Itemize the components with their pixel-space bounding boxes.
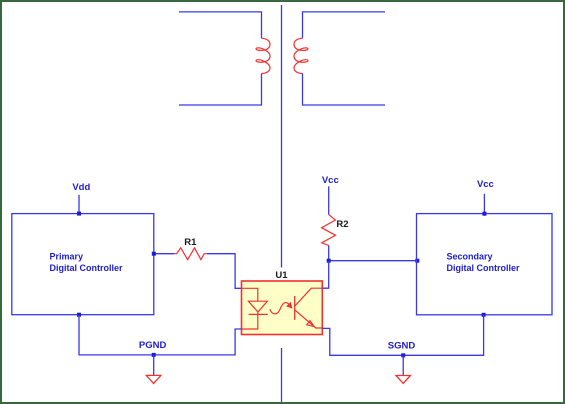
ground SGND xyxy=(396,376,410,384)
U1 phototransistor collector xyxy=(295,288,323,306)
opto-coupler U1 body xyxy=(242,281,323,335)
primary digital controller block xyxy=(12,214,154,315)
svg-text:Digital Controller: Digital Controller xyxy=(447,263,520,273)
junction secondary controller ground pin xyxy=(482,313,486,317)
resistor R2 xyxy=(322,215,336,246)
junction R2 node xyxy=(327,259,331,263)
svg-text:SGND: SGND xyxy=(388,341,416,352)
U1 light arrow xyxy=(270,303,291,314)
wire Vcc to secondary controller xyxy=(483,194,485,214)
U1 emitter arrowhead xyxy=(307,321,315,327)
junction Vcc pin xyxy=(482,212,486,216)
junction primary controller ground pin xyxy=(77,313,81,317)
junction SGND xyxy=(401,353,405,357)
svg-text:PGND: PGND xyxy=(139,340,167,351)
svg-text:Digital Controller: Digital Controller xyxy=(50,263,123,273)
U1 LED cathode lead xyxy=(242,312,258,329)
transformer T1 primary coil xyxy=(256,38,270,73)
secondary digital controller block xyxy=(417,214,553,315)
svg-text:Primary: Primary xyxy=(50,252,84,262)
transformer T1 primary winding wire xyxy=(179,12,262,105)
resistor R1 xyxy=(174,248,206,260)
U1 phototransistor base bar xyxy=(294,296,296,320)
wire junction to secondary controller xyxy=(329,260,418,262)
svg-text:R1: R1 xyxy=(184,237,197,248)
wire R2 to junction xyxy=(328,245,330,260)
wire PGND to ground xyxy=(153,355,155,375)
svg-text:R2: R2 xyxy=(336,219,348,230)
junction secondary controller input pin xyxy=(415,259,419,263)
svg-text:Vcc: Vcc xyxy=(477,179,494,190)
U1 LED cathode bar xyxy=(249,313,268,315)
transformer T1 secondary coil xyxy=(294,38,308,73)
wire junction to opto collector xyxy=(322,261,328,289)
svg-text:U1: U1 xyxy=(275,270,288,281)
ground PGND xyxy=(146,375,161,383)
wire Vcc to R2 xyxy=(328,186,330,214)
U1 LED xyxy=(248,301,267,312)
wire primary controller output to R1 xyxy=(154,253,175,255)
U1 phototransistor emitter xyxy=(295,310,323,328)
svg-text:Secondary: Secondary xyxy=(447,252,493,262)
U1 LED anode lead xyxy=(242,288,258,301)
svg-text:Vdd: Vdd xyxy=(72,182,90,193)
junction PGND xyxy=(152,353,156,357)
transformer T1 secondary winding wire xyxy=(303,12,386,105)
isolation barrier line (lower segment) xyxy=(281,348,283,402)
junction Vdd pin xyxy=(77,212,81,216)
svg-text:Vcc: Vcc xyxy=(322,175,339,186)
wire R1 to opto anode xyxy=(207,254,242,289)
wire Vdd to primary controller xyxy=(78,195,80,214)
wire primary controller to PGND rail xyxy=(79,315,242,355)
wire opto emitter to SGND rail xyxy=(322,315,483,356)
junction primary output pin xyxy=(152,252,156,256)
wire SGND to ground xyxy=(402,355,404,375)
isolation barrier line (upper segment) xyxy=(281,5,283,268)
